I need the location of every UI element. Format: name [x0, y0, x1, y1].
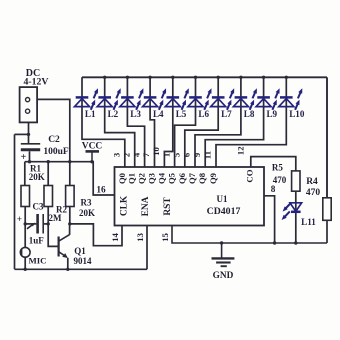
- connector J1 DC input: [20, 87, 37, 122]
- svg-text:L6: L6: [198, 109, 209, 119]
- transistor Q1: [59, 235, 70, 258]
- svg-text:Q4: Q4: [156, 172, 166, 184]
- svg-text:5: 5: [172, 153, 182, 157]
- svg-text:470: 470: [306, 188, 321, 198]
- svg-text:L7: L7: [221, 109, 232, 119]
- svg-text:Q1: Q1: [127, 173, 137, 184]
- svg-text:Q0: Q0: [117, 173, 127, 184]
- svg-text:+: +: [17, 214, 22, 224]
- svg-text:100uF: 100uF: [43, 147, 69, 157]
- LED L4: [143, 88, 167, 110]
- svg-text:Q3: Q3: [147, 173, 157, 184]
- capacitor C2: [21, 143, 40, 145]
- svg-text:Q6: Q6: [177, 172, 187, 184]
- ground: [212, 243, 235, 266]
- node rail junction: [171, 76, 174, 79]
- wire VCC bus: [25, 162, 115, 195]
- node VCC bus junction: [28, 160, 31, 163]
- node base junction: [47, 222, 50, 225]
- LED L1: [75, 88, 99, 110]
- svg-text:U1: U1: [217, 194, 228, 204]
- svg-text:9: 9: [192, 153, 202, 157]
- node rail junction: [285, 76, 288, 79]
- wire right rail: [326, 77, 328, 198]
- svg-text:16: 16: [96, 186, 106, 196]
- node VCC bus junction: [68, 160, 71, 163]
- svg-text:Q2: Q2: [137, 173, 147, 184]
- wire R1 to MIC: [24, 207, 26, 248]
- wire top cathode rail: [82, 76, 327, 78]
- svg-text:VCC: VCC: [82, 142, 103, 152]
- wire LED L9 feed and route to pin 9: [205, 77, 263, 167]
- resistor R5: [292, 171, 300, 191]
- wire LED L6 feed and route to pin 1: [175, 77, 196, 167]
- wire left ground line: [15, 268, 148, 270]
- svg-text:C2: C2: [48, 135, 60, 145]
- node rail junction: [239, 76, 242, 79]
- svg-text:4-12V: 4-12V: [23, 77, 48, 88]
- node ground rail junction: [220, 241, 223, 244]
- svg-text:L11: L11: [301, 217, 316, 227]
- LED L10: [279, 88, 303, 110]
- capacitor C3: [36, 214, 39, 234]
- wire LED L7 feed and route to pin 5: [185, 77, 218, 167]
- wire bus to R3: [69, 162, 71, 186]
- svg-text:L5: L5: [176, 109, 187, 119]
- svg-text:R3: R3: [81, 198, 92, 208]
- svg-text:3: 3: [112, 153, 122, 157]
- svg-text:L1: L1: [85, 109, 96, 119]
- LED L8: [233, 88, 257, 110]
- LED L3: [120, 88, 143, 110]
- wire to left rail: [15, 133, 29, 135]
- wire LED L3 feed and route to pin 4: [127, 77, 144, 167]
- svg-text:R4: R4: [306, 177, 318, 187]
- svg-text:20K: 20K: [29, 172, 45, 182]
- node ground rail junction: [294, 241, 297, 244]
- node rail junction: [262, 76, 265, 79]
- svg-text:12: 12: [236, 147, 246, 156]
- svg-text:CLK: CLK: [120, 195, 130, 216]
- wire collector to R3: [69, 224, 71, 235]
- svg-text:13: 13: [135, 233, 145, 242]
- capacitor C3 polarity arrow: [27, 224, 33, 229]
- svg-text:R5: R5: [272, 163, 283, 173]
- svg-text:7: 7: [141, 152, 151, 157]
- svg-text:Q5: Q5: [167, 173, 177, 184]
- wire collector to pin 14: [70, 224, 122, 246]
- svg-text:1: 1: [161, 153, 171, 157]
- wire LED L1 feed and route to pin 3: [82, 77, 125, 167]
- wire LED L4 feed and route to pin 7: [150, 77, 154, 167]
- svg-text:CD4017: CD4017: [207, 206, 241, 217]
- svg-text:RST: RST: [163, 197, 173, 216]
- power VCC symbol: [86, 150, 100, 153]
- svg-text:15: 15: [160, 233, 170, 242]
- svg-text:Q9: Q9: [208, 173, 218, 184]
- svg-text:11: 11: [203, 151, 213, 159]
- svg-text:L3: L3: [130, 109, 141, 119]
- resistor R2: [44, 186, 53, 207]
- svg-text:C3: C3: [33, 202, 44, 212]
- wire connector plus to VCC bus: [37, 99, 70, 161]
- wire R4 to ground rail: [326, 220, 328, 243]
- wire emitter to ground line: [67, 258, 69, 270]
- svg-text:L10: L10: [289, 109, 305, 119]
- resistor R3: [66, 186, 75, 207]
- wire R2 to base node: [48, 207, 57, 247]
- svg-text:20K: 20K: [79, 208, 95, 218]
- wire bus to R2: [47, 162, 49, 186]
- wire pin 8 to ground rail: [264, 196, 275, 243]
- wire LED L8 feed and route to pin 6: [195, 77, 241, 167]
- node connector minus junction: [27, 133, 30, 136]
- node VCC bus junction: [90, 160, 93, 163]
- node ground rail junction: [273, 241, 276, 244]
- wire to C3: [25, 223, 36, 225]
- svg-text:GND: GND: [213, 271, 234, 281]
- svg-text:10: 10: [151, 147, 161, 156]
- node R1/C3/MIC junction: [24, 222, 27, 225]
- wire bottom ground rail: [172, 226, 327, 244]
- LED L7: [211, 88, 235, 110]
- LED L6: [188, 88, 212, 110]
- LED L5: [165, 88, 189, 110]
- svg-text:Q1: Q1: [74, 246, 86, 256]
- resistor R1: [21, 186, 30, 207]
- node rail junction: [126, 76, 129, 79]
- node rail junction: [148, 76, 151, 79]
- svg-text:L8: L8: [244, 109, 255, 119]
- svg-text:L9: L9: [266, 109, 277, 119]
- wire MIC to ground line: [24, 257, 26, 269]
- wire connector minus down: [28, 122, 30, 143]
- svg-text:2: 2: [121, 153, 131, 157]
- microphone MIC: [20, 247, 30, 257]
- wire LED L10 feed and route to pin 11: [216, 77, 286, 167]
- svg-text:14: 14: [110, 233, 120, 242]
- wire bus to R1: [24, 162, 26, 186]
- svg-text:ENA: ENA: [141, 196, 151, 216]
- wire LED L5 feed and route to pin 10: [164, 77, 172, 167]
- svg-text:CO: CO: [245, 169, 255, 182]
- svg-text:8: 8: [271, 184, 276, 194]
- wire C2 to bus: [29, 151, 31, 161]
- wire left rail: [14, 134, 16, 269]
- LED L2: [97, 88, 121, 110]
- node rail junction: [217, 76, 220, 79]
- node emitter ground junction: [66, 268, 69, 271]
- node rail junction: [194, 76, 197, 79]
- svg-text:L4: L4: [153, 109, 164, 119]
- svg-text:1uF: 1uF: [29, 236, 45, 246]
- wire R5 to L11: [295, 191, 297, 243]
- wire pin 13: [146, 226, 148, 270]
- resistor R4: [323, 198, 331, 221]
- LED L9: [256, 88, 280, 110]
- wire C3 to base node: [43, 223, 48, 225]
- node MIC ground junction: [24, 268, 27, 271]
- svg-text:4: 4: [131, 152, 141, 157]
- wire pin 12 to R5: [251, 157, 296, 171]
- svg-text:2M: 2M: [49, 213, 63, 223]
- svg-text:6: 6: [182, 152, 192, 157]
- node collector junction: [68, 222, 71, 225]
- svg-text:L2: L2: [108, 109, 119, 119]
- svg-text:MIC: MIC: [28, 256, 46, 266]
- node VCC bus junction: [47, 160, 50, 163]
- node rail junction: [103, 76, 106, 79]
- svg-text:Q8: Q8: [197, 172, 207, 184]
- wire R3 bottom: [69, 207, 71, 224]
- svg-text:Q7: Q7: [187, 172, 197, 184]
- wire LED L2 feed and route to pin 2: [105, 77, 135, 167]
- LED L11: [282, 203, 302, 220]
- svg-text:9014: 9014: [74, 256, 93, 266]
- op-amp U1 CD4017 IC body: [115, 167, 265, 226]
